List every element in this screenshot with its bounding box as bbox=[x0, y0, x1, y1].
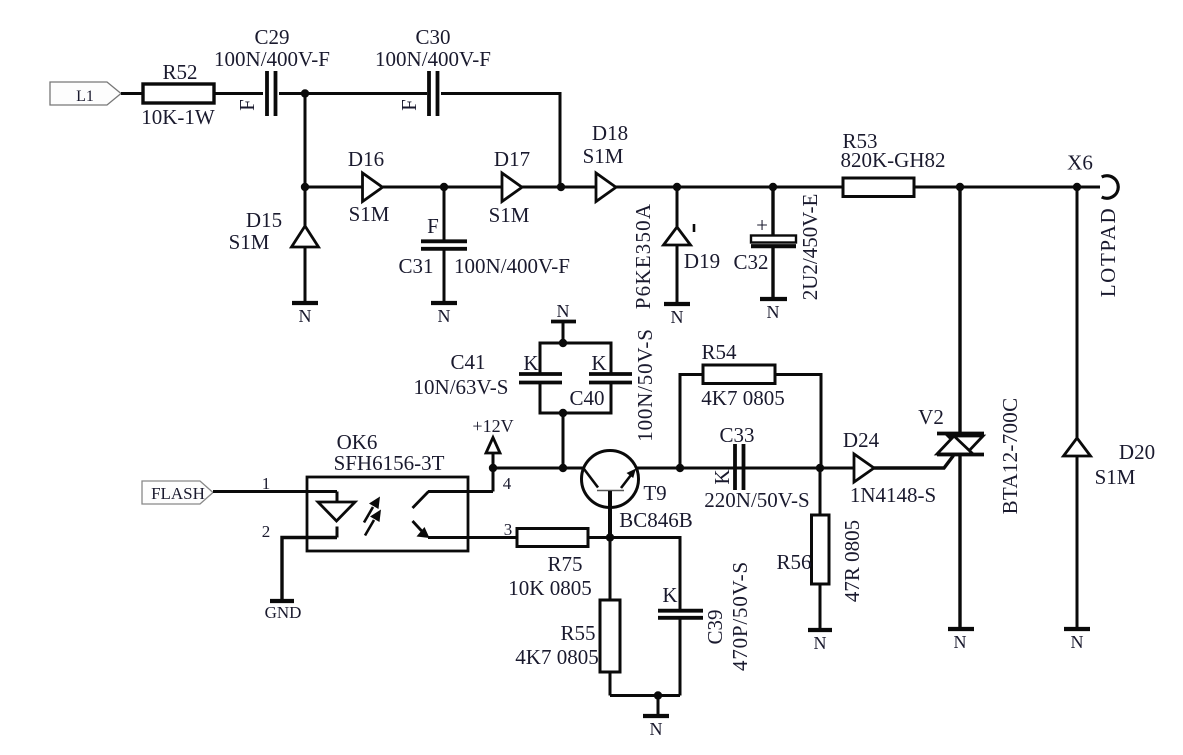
capacitor C40 bbox=[569, 328, 657, 441]
svg-text:10N/63V-S: 10N/63V-S bbox=[414, 375, 509, 399]
wire L1 to R52 bbox=[121, 92, 143, 95]
ground N below C31 bbox=[431, 303, 457, 326]
wire vertical node to diode row bbox=[304, 94, 307, 227]
resistor R53 bbox=[841, 129, 946, 197]
wire bracket to rail bbox=[562, 413, 565, 468]
svg-text:820K-GH82: 820K-GH82 bbox=[841, 148, 946, 172]
svg-text:F: F bbox=[235, 99, 259, 111]
svg-text:S1M: S1M bbox=[229, 230, 270, 254]
svg-text:N: N bbox=[438, 306, 451, 326]
svg-text:100N/50V-S: 100N/50V-S bbox=[633, 328, 657, 441]
svg-text:S1M: S1M bbox=[349, 202, 390, 226]
svg-text:10K-1W: 10K-1W bbox=[141, 105, 215, 129]
svg-text:+: + bbox=[756, 213, 768, 237]
svg-text:N: N bbox=[954, 632, 967, 652]
junction node bracket rail bbox=[559, 464, 567, 472]
svg-text:K: K bbox=[523, 351, 538, 375]
junction node V2 branch bbox=[956, 183, 964, 191]
resistor R52 bbox=[141, 60, 215, 129]
svg-text:R52: R52 bbox=[162, 60, 197, 84]
wire D16 to node C31 bbox=[382, 186, 444, 189]
junction node D15 bbox=[301, 183, 309, 191]
svg-text:BTA12-700C: BTA12-700C bbox=[998, 398, 1022, 515]
wire C30 to corner down bbox=[441, 94, 560, 188]
wire D20 to ground bbox=[1076, 456, 1079, 629]
wire rail transistor to D24 bbox=[636, 467, 854, 470]
wire D18 to node D19 bbox=[616, 186, 678, 189]
resistor R56 bbox=[776, 468, 864, 630]
svg-text:220N/50V-S: 220N/50V-S bbox=[704, 488, 809, 512]
svg-text:N: N bbox=[557, 301, 570, 321]
junction node D19 bbox=[673, 183, 681, 191]
svg-text:S1M: S1M bbox=[1095, 465, 1136, 489]
svg-text:47R 0805: 47R 0805 bbox=[840, 520, 864, 602]
svg-text:R54: R54 bbox=[701, 340, 737, 364]
optocoupler OK6 box bbox=[307, 430, 468, 551]
wire node C32 to R53 bbox=[773, 186, 843, 189]
svg-text:X6: X6 bbox=[1067, 151, 1093, 175]
svg-text:C29: C29 bbox=[254, 25, 289, 49]
wire R54 left leg bbox=[680, 375, 703, 469]
wire rail to transistor bbox=[493, 467, 584, 470]
svg-text:N: N bbox=[650, 719, 663, 739]
capacitor C29 bbox=[214, 25, 330, 116]
capacitor C41 bbox=[414, 350, 562, 399]
svg-text:+12V: +12V bbox=[472, 416, 513, 436]
ground GND bbox=[265, 601, 302, 622]
junction node bottom bracket bbox=[559, 409, 567, 417]
diode D16 bbox=[348, 147, 390, 226]
diode D24 bbox=[843, 428, 936, 507]
svg-text:BC846B: BC846B bbox=[619, 508, 693, 532]
wire pin 2 to GND bbox=[282, 538, 337, 602]
svg-text:N: N bbox=[767, 302, 780, 322]
junction node bottom ground bbox=[654, 691, 662, 699]
svg-text:100N/400V-F: 100N/400V-F bbox=[214, 47, 330, 71]
resistor R55 bbox=[515, 538, 620, 696]
wire pin 4 bbox=[468, 490, 493, 493]
junction node C31 bbox=[440, 183, 448, 191]
wire pin 3 to R75 bbox=[468, 536, 517, 539]
svg-text:S1M: S1M bbox=[583, 144, 624, 168]
wire R53 to X6 bbox=[914, 186, 1100, 189]
connector X6 pad bbox=[1067, 151, 1120, 298]
capacitor C31 bbox=[398, 214, 569, 278]
svg-text:FLASH: FLASH bbox=[151, 484, 205, 503]
svg-text:2: 2 bbox=[262, 522, 271, 541]
svg-text:4: 4 bbox=[503, 474, 512, 493]
svg-text:C41: C41 bbox=[450, 350, 485, 374]
diode D17 bbox=[489, 147, 531, 227]
svg-text:F: F bbox=[397, 99, 421, 111]
junction node R54 C33 bbox=[676, 464, 684, 472]
svg-text:T9: T9 bbox=[643, 481, 666, 505]
wire bottom bracket R55 C39 bbox=[610, 694, 680, 697]
junction node C30 drop bbox=[557, 183, 565, 191]
capacitor C32 polarized bbox=[733, 187, 822, 300]
diode D19 TVS bbox=[631, 203, 720, 309]
svg-text:N: N bbox=[814, 633, 827, 653]
junction node +12V rail bbox=[489, 464, 497, 472]
diode D18 bbox=[583, 121, 629, 202]
svg-text:D19: D19 bbox=[684, 249, 720, 273]
svg-text:C31: C31 bbox=[398, 254, 433, 278]
svg-text:GND: GND bbox=[265, 603, 302, 622]
capacitor C30 bbox=[375, 25, 491, 116]
svg-text:4K7 0805: 4K7 0805 bbox=[515, 645, 598, 669]
svg-text:V2: V2 bbox=[918, 405, 944, 429]
svg-text:D15: D15 bbox=[246, 208, 282, 232]
wire D15 to ground bbox=[304, 247, 307, 303]
transistor T9 bbox=[582, 451, 693, 538]
svg-text:100N/400V-F: 100N/400V-F bbox=[375, 47, 491, 71]
svg-text:100N/400V-F: 100N/400V-F bbox=[454, 254, 570, 278]
wire D19 to ground bbox=[676, 245, 679, 304]
svg-text:K: K bbox=[591, 351, 606, 375]
wire C31 to ground bbox=[443, 250, 446, 303]
resistor R75 bbox=[508, 529, 591, 601]
junction top node bbox=[301, 89, 309, 97]
supply +12V bbox=[472, 416, 513, 492]
resistor R54 bbox=[701, 340, 784, 410]
svg-text:1: 1 bbox=[262, 474, 271, 493]
junction node base bbox=[606, 533, 614, 541]
svg-text:R75: R75 bbox=[547, 552, 582, 576]
wire R75 to base node bbox=[588, 536, 610, 539]
svg-text:N: N bbox=[671, 307, 684, 327]
svg-text:S1M: S1M bbox=[489, 203, 530, 227]
ground N below D15 bbox=[292, 303, 318, 326]
svg-text:N: N bbox=[299, 306, 312, 326]
svg-text:L1: L1 bbox=[76, 88, 94, 105]
wire node to C30 bbox=[305, 92, 427, 95]
junction node top bracket bbox=[559, 339, 567, 347]
wire D17 to D18 bbox=[522, 186, 597, 189]
wire bottom bracket bbox=[540, 384, 611, 413]
wire node down to D19 bbox=[676, 187, 679, 228]
wire R54 right leg bbox=[775, 375, 821, 469]
svg-text:4K7 0805: 4K7 0805 bbox=[701, 386, 784, 410]
svg-text:LOTPAD: LOTPAD bbox=[1096, 207, 1120, 298]
wire node D19 to node C32 bbox=[677, 186, 773, 189]
svg-text:1N4148-S: 1N4148-S bbox=[850, 483, 936, 507]
wire top bracket bbox=[540, 343, 611, 373]
OK6 phototransistor bbox=[413, 492, 469, 539]
connector FLASH bbox=[142, 481, 213, 504]
OK6 LED bbox=[318, 492, 355, 538]
svg-text:C39: C39 bbox=[703, 609, 727, 644]
svg-text:P6KE350A: P6KE350A bbox=[631, 203, 655, 309]
wire V2 to ground bbox=[958, 455, 961, 629]
svg-text:R55: R55 bbox=[560, 621, 595, 645]
ground N below D20 bbox=[1064, 629, 1090, 652]
svg-text:N: N bbox=[1071, 632, 1084, 652]
svg-text:2U2/450V-E: 2U2/450V-E bbox=[798, 194, 822, 301]
wire V2 branch down bbox=[958, 187, 961, 433]
wire node down to C31 bbox=[443, 187, 446, 240]
svg-text:K: K bbox=[710, 469, 734, 484]
capacitor C33 bbox=[704, 423, 809, 512]
wire D24 to gate bbox=[874, 456, 954, 469]
wire node to ground bbox=[657, 696, 660, 717]
svg-text:F: F bbox=[427, 214, 439, 238]
svg-text:470P/50V-S: 470P/50V-S bbox=[728, 561, 752, 671]
svg-text:10K 0805: 10K 0805 bbox=[508, 576, 591, 600]
diode D20 bbox=[1064, 438, 1156, 489]
OK6 photon arrows bbox=[364, 497, 381, 536]
ground N below C32 bbox=[760, 299, 787, 322]
wire node to D16 bbox=[305, 186, 363, 189]
junction node D24 R56 bbox=[816, 464, 824, 472]
svg-text:SFH6156-3T: SFH6156-3T bbox=[334, 451, 445, 475]
supply N above C40 C41 bbox=[551, 301, 576, 343]
wire R52 to C29 bbox=[214, 92, 263, 95]
svg-text:K: K bbox=[662, 583, 677, 607]
wire FLASH to pin 1 bbox=[213, 490, 337, 493]
svg-text:D24: D24 bbox=[843, 428, 880, 452]
ground N bottom bbox=[643, 716, 669, 739]
svg-text:C40: C40 bbox=[569, 386, 604, 410]
svg-text:C33: C33 bbox=[719, 423, 754, 447]
diode D15 bbox=[229, 208, 319, 254]
wire C29 to node bbox=[279, 92, 305, 95]
triac V2 bbox=[918, 398, 1022, 515]
junction node C32 bbox=[769, 183, 777, 191]
wire C31 node to D17 bbox=[444, 186, 502, 189]
svg-text:D20: D20 bbox=[1119, 440, 1155, 464]
connector L1 bbox=[50, 82, 121, 105]
svg-text:D18: D18 bbox=[592, 121, 628, 145]
svg-text:C30: C30 bbox=[415, 25, 450, 49]
ground N below D19 bbox=[664, 304, 690, 327]
wire X6 branch down bbox=[1076, 187, 1079, 439]
wire base node to C39 bbox=[610, 538, 680, 610]
svg-text:R56: R56 bbox=[776, 550, 811, 574]
ground N below V2 bbox=[948, 629, 974, 652]
svg-text:C32: C32 bbox=[733, 250, 768, 274]
svg-text:D17: D17 bbox=[494, 147, 530, 171]
junction node X6 bbox=[1073, 183, 1081, 191]
ground N below R56 bbox=[808, 630, 832, 653]
capacitor C39 bbox=[658, 561, 752, 695]
svg-text:D16: D16 bbox=[348, 147, 384, 171]
